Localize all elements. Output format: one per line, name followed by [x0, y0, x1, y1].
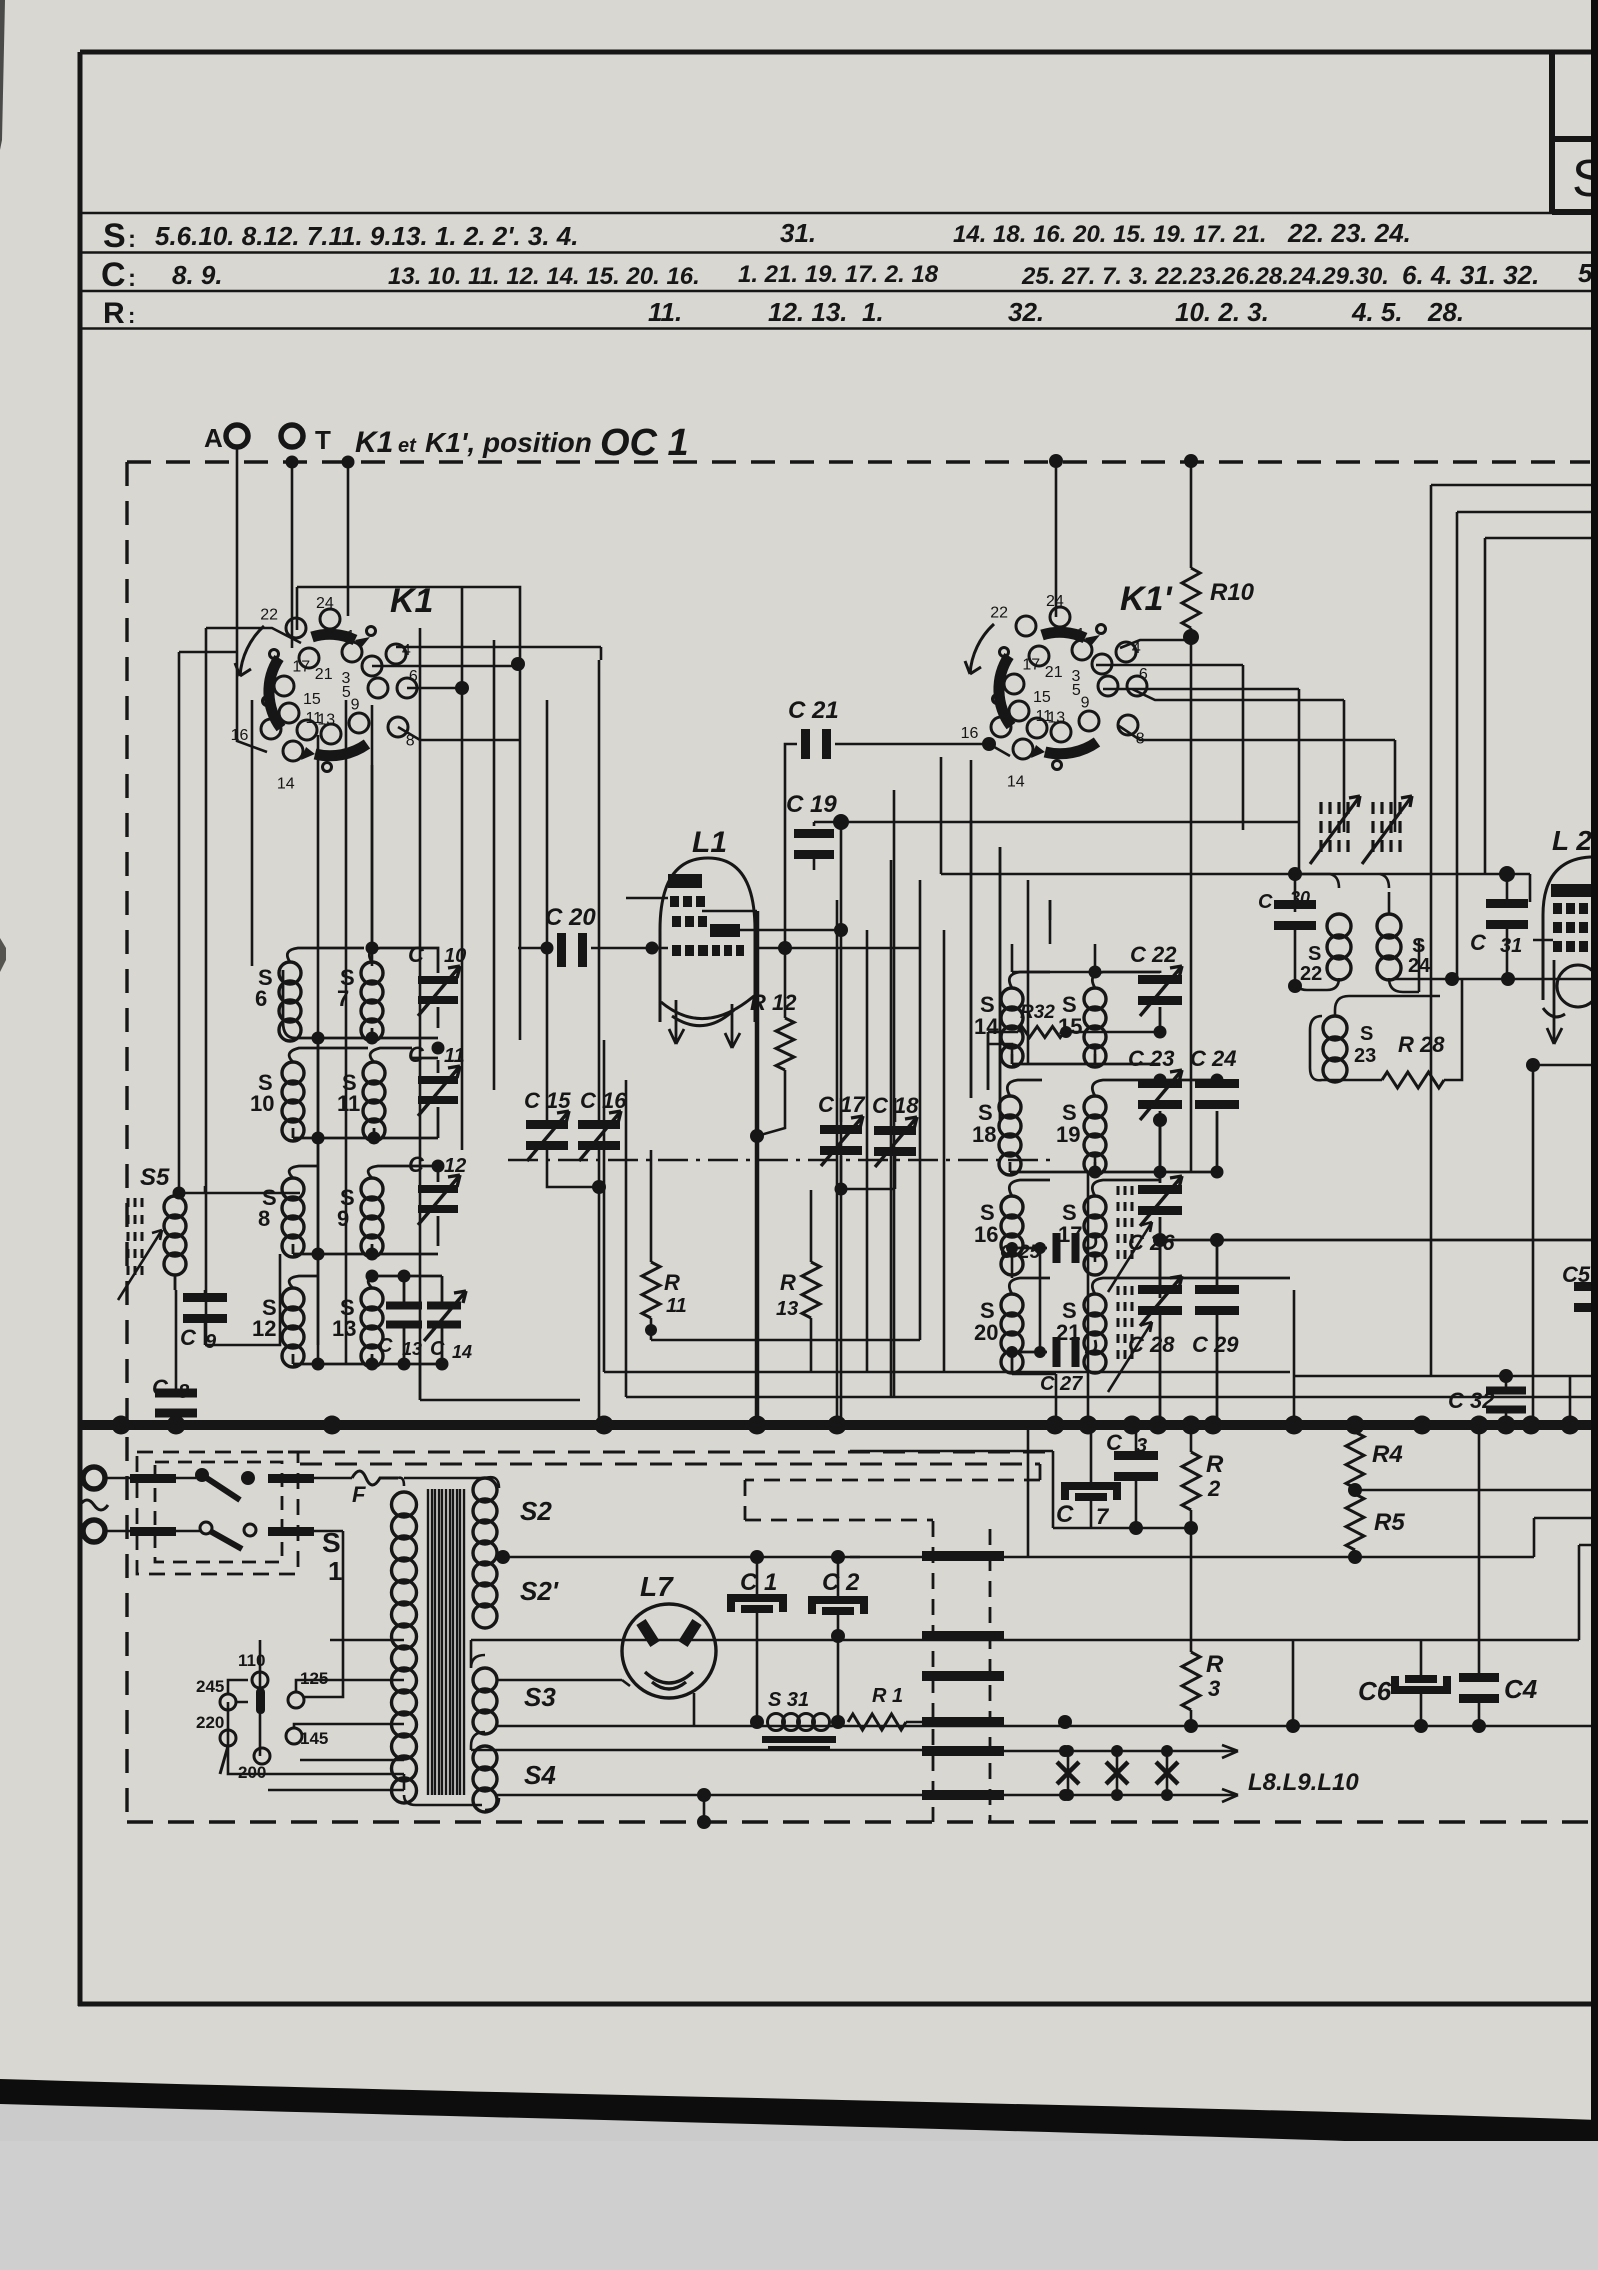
svg-text:R: R [103, 297, 125, 330]
trimmer C15 [526, 1120, 568, 1129]
svg-text:22. 23. 24.: 22. 23. 24. [1287, 218, 1411, 248]
svg-text:8: 8 [178, 1381, 190, 1403]
svg-text:7: 7 [337, 986, 349, 1011]
capacitor C25 [1053, 1233, 1061, 1263]
svg-text:R4: R4 [1372, 1441, 1403, 1468]
parts-list row lines [80, 213, 1598, 329]
svg-text:L1: L1 [692, 826, 727, 859]
svg-text:125: 125 [300, 1669, 328, 1688]
svg-text:C: C [152, 1375, 169, 1400]
right verticals to bus [1294, 1290, 1570, 1425]
svg-text:28.: 28. [1427, 297, 1464, 327]
svg-text:22: 22 [1300, 963, 1322, 985]
svg-text:14: 14 [1007, 773, 1025, 790]
svg-text::: : [128, 303, 135, 328]
mains terminal upper [83, 1467, 105, 1489]
wire K1 left frame [179, 628, 301, 1345]
arrows L8 L9 L10 [1180, 1745, 1238, 1802]
svg-text:6: 6 [1139, 666, 1148, 683]
svg-text:22: 22 [260, 606, 278, 623]
node line C7 C3 R2 [1129, 1521, 1143, 1535]
svg-text:14: 14 [277, 775, 295, 792]
transformer primary S1 [392, 1492, 417, 1803]
svg-text:F: F [352, 1482, 366, 1507]
svg-text:25. 27. 7. 3. 22.23.26.28.24.2: 25. 27. 7. 3. 22.23.26.28.24.29.30. [1021, 263, 1389, 290]
svg-text:C: C [101, 256, 126, 294]
svg-text:C 2: C 2 [822, 1569, 860, 1596]
svg-text:15: 15 [303, 691, 321, 708]
svg-text:C 19: C 19 [786, 791, 837, 818]
capacitor C24 [1195, 1079, 1239, 1088]
line 1640 [690, 1545, 1598, 1640]
svg-text:13: 13 [1047, 710, 1065, 727]
capacitor C13 [386, 1302, 422, 1310]
svg-text:C: C [1258, 891, 1273, 913]
svg-text:C 20: C 20 [545, 904, 596, 931]
svg-text:200: 200 [238, 1763, 266, 1782]
svg-text:4: 4 [402, 642, 411, 659]
svg-text:C: C [180, 1325, 197, 1350]
coil S14 [1001, 988, 1023, 1067]
coil S11 [363, 1062, 385, 1141]
scanner strip right edge [1591, 0, 1598, 2141]
svg-text:21: 21 [315, 666, 333, 683]
resistor R32 [1018, 1027, 1064, 1038]
coil S9 [361, 1178, 383, 1257]
svg-text:S2': S2' [520, 1576, 559, 1606]
svg-text:C 21: C 21 [788, 697, 839, 724]
fuse bars lower [130, 1527, 176, 1536]
svg-text:9: 9 [205, 1331, 217, 1353]
svg-text:12: 12 [252, 1316, 276, 1341]
svg-text:C4: C4 [1504, 1674, 1538, 1704]
coil S8 [282, 1178, 304, 1257]
svg-text:R 1: R 1 [872, 1685, 903, 1707]
svg-text:21: 21 [1045, 664, 1063, 681]
svg-text:5.6.10. 8.12. 7.11. 9.13. 1.: 5.6.10. 8.12. 7.11. 9.13. 1. 2. 2'. 3. 4… [155, 221, 578, 251]
dashed border bottom [127, 1820, 1592, 1823]
transformer core [428, 1489, 464, 1795]
svg-text:220: 220 [196, 1713, 224, 1732]
resistor R28 [1382, 1072, 1444, 1088]
mains terminal lower [83, 1520, 105, 1542]
svg-text:C: C [1106, 1430, 1123, 1455]
capacitor C8 [155, 1389, 197, 1398]
svg-text:S: S [103, 217, 126, 255]
resistor R5 [1346, 1494, 1364, 1550]
power dashed box right jog [745, 1464, 1040, 1520]
svg-text:10. 2. 3.: 10. 2. 3. [1175, 297, 1269, 327]
svg-text::: : [128, 265, 136, 292]
svg-text:R10: R10 [1210, 579, 1255, 606]
trimmer C18 [874, 1126, 916, 1135]
coil S21 with iron core [1084, 1294, 1106, 1373]
coil S23 [1323, 1016, 1347, 1082]
svg-text:31.: 31. [780, 218, 816, 248]
capacitor C7 [1065, 1486, 1117, 1500]
trimmer C26 [1138, 1185, 1182, 1194]
capacitor C4 [1459, 1673, 1499, 1682]
secondary S2 [473, 1478, 497, 1628]
capacitor C3 [1114, 1451, 1158, 1460]
svg-text:C 32: C 32 [1448, 1388, 1495, 1413]
svg-text:C 1: C 1 [740, 1569, 777, 1596]
ganged capacitor dash-dot line [508, 1159, 1055, 1161]
capacitor C32 [1486, 1387, 1526, 1395]
svg-text:K1: K1 [355, 426, 393, 459]
svg-text:10: 10 [250, 1091, 274, 1116]
middle horizontal collectors [604, 1330, 1598, 1397]
svg-text:C: C [378, 1335, 393, 1357]
mains tilde [80, 1500, 108, 1510]
svg-text:R32: R32 [1020, 1002, 1055, 1023]
S18-S19-C23-C24 wiring [1007, 1077, 1217, 1172]
svg-text:K1', position: K1', position [425, 427, 592, 458]
svg-text:5: 5 [342, 684, 351, 701]
coil S7 [361, 962, 383, 1041]
svg-text:13: 13 [317, 712, 335, 729]
coil S6 [279, 962, 301, 1041]
svg-text:K1': K1' [1120, 580, 1173, 618]
S23 box wiring [1310, 996, 1440, 1080]
svg-text:OC 1: OC 1 [600, 422, 689, 464]
power dashed box top [288, 1452, 1055, 1464]
capacitor C29 [1195, 1285, 1239, 1294]
svg-text:L 2: L 2 [1552, 825, 1592, 856]
svg-text:11: 11 [337, 1091, 360, 1116]
svg-text:13: 13 [332, 1316, 356, 1341]
coil S5 with core [164, 1196, 186, 1275]
fuse bars upper [130, 1474, 176, 1483]
S4 bottom pair [697, 1788, 711, 1802]
svg-text:C: C [408, 1042, 425, 1067]
svg-text:S: S [322, 1527, 341, 1558]
svg-text:12. 13.: 12. 13. [768, 297, 848, 327]
iron-core trimmer right [1362, 796, 1412, 864]
K1 pin wires [372, 647, 601, 740]
svg-text:R: R [664, 1270, 680, 1295]
svg-text:7: 7 [1096, 1504, 1110, 1529]
L2 cathode circle [1557, 965, 1598, 1007]
svg-text:12: 12 [444, 1155, 466, 1177]
S20-S21-C27-C28-C29 wiring [1009, 1240, 1598, 1425]
wire junction under caption [342, 456, 355, 469]
capacitor C6 [1395, 1676, 1447, 1690]
secondary S4 [473, 1746, 497, 1812]
title block top right [1552, 54, 1598, 212]
svg-text:S: S [1360, 1023, 1373, 1045]
svg-text:et: et [398, 435, 417, 457]
svg-text:T: T [315, 425, 331, 455]
svg-text:A: A [204, 423, 223, 453]
switch blades [105, 1478, 352, 1697]
switch dashed box inner [155, 1462, 282, 1562]
capacitor C1 [731, 1598, 783, 1612]
scan artifact top-left edge [0, 0, 5, 150]
svg-text:C: C [408, 1152, 425, 1177]
L7 leads [622, 1680, 694, 1726]
iron-core trimmer left [1310, 796, 1360, 864]
S22 S24 wiring [1295, 874, 1419, 992]
coil S18 [999, 1096, 1021, 1175]
trimmer C22 [1138, 975, 1182, 984]
capacitor C20 [557, 933, 566, 967]
resistor R2 [1182, 1452, 1200, 1510]
svg-text:3: 3 [1208, 1676, 1220, 1701]
scan artifact left nick [0, 938, 6, 972]
svg-text:110: 110 [238, 1651, 265, 1670]
svg-text:30: 30 [1290, 888, 1310, 908]
line 1557 [850, 1518, 1598, 1557]
svg-text:11.: 11. [648, 297, 682, 327]
capacitor C31 [1486, 899, 1528, 908]
dashed border top [127, 460, 1590, 463]
svg-text:5: 5 [1072, 682, 1081, 699]
coil S13 [361, 1288, 383, 1367]
trimmer C10 [418, 976, 458, 984]
line 1726 [1184, 1719, 1198, 1733]
switch dashed box outer [137, 1452, 298, 1574]
svg-text:15: 15 [1033, 689, 1051, 706]
lamp connections [1058, 1715, 1072, 1729]
svg-text:C 25: C 25 [1000, 1242, 1041, 1263]
svg-text:22: 22 [990, 604, 1008, 621]
coil S10 [282, 1062, 304, 1141]
trimmer C12 [418, 1185, 458, 1193]
S3 to L7 [497, 1680, 694, 1726]
svg-text:R5: R5 [1374, 1509, 1405, 1536]
svg-text:14. 18. 16. 20. 15. 19. 17. 21: 14. 18. 16. 20. 15. 19. 17. 21. [953, 221, 1267, 248]
svg-text:C6: C6 [1358, 1676, 1392, 1706]
trimmer C28 [1138, 1285, 1182, 1294]
svg-text:C 22: C 22 [1130, 942, 1177, 967]
svg-text:14: 14 [452, 1342, 472, 1362]
svg-text:1. 21. 19. 17. 2. 18: 1. 21. 19. 17. 2. 18 [738, 261, 939, 288]
svg-text:145: 145 [300, 1729, 328, 1748]
shield ladder bars [922, 1551, 1004, 1561]
svg-text:S5: S5 [140, 1164, 170, 1191]
coil S24 [1377, 914, 1401, 980]
wire K1' pin4 to R10 [1056, 462, 1395, 874]
svg-text:14: 14 [974, 1014, 999, 1039]
svg-text:C: C [1470, 930, 1487, 955]
middle long verticals [604, 820, 1000, 1425]
svg-text:11: 11 [666, 1295, 687, 1317]
capacitor C9 [183, 1293, 227, 1302]
svg-text:R: R [780, 1270, 796, 1295]
svg-text:1: 1 [328, 1556, 342, 1586]
svg-text:2: 2 [1207, 1476, 1221, 1501]
svg-text:4. 5.: 4. 5. [1351, 297, 1403, 327]
S10-S11-C11 wiring [289, 1048, 438, 1138]
resistor R10 [1182, 568, 1200, 628]
resistor R11 [642, 1262, 660, 1318]
thick cathode wire down [755, 911, 760, 1425]
K1' region verticals [988, 880, 1095, 1262]
capacitor C19 [794, 829, 834, 838]
svg-text:23: 23 [1354, 1045, 1376, 1067]
S6-S7-C10 wiring [283, 948, 438, 1038]
voltage selector taps [268, 1640, 404, 1790]
row bottoms to bus verticals [318, 1038, 580, 1400]
capacitor C30 [1274, 900, 1316, 909]
coil S20 [1001, 1294, 1023, 1373]
svg-text:6: 6 [255, 986, 267, 1011]
capacitor C21 [801, 729, 810, 759]
rotary switch K1 [231, 595, 418, 792]
svg-text:C: C [1056, 1501, 1074, 1528]
coil S22 [1327, 914, 1351, 980]
transformer top/bottom connections [398, 1477, 925, 1810]
svg-text:R 28: R 28 [1398, 1032, 1445, 1057]
trimmer C23 [1138, 1079, 1182, 1088]
svg-text:C 24: C 24 [1190, 1046, 1236, 1071]
L2 arrow [1547, 960, 1562, 1044]
trimmer C16 [578, 1120, 620, 1129]
svg-text:S 31: S 31 [768, 1689, 809, 1711]
trimmer C14 [427, 1302, 461, 1310]
S12-S13-C13-C14 wiring [289, 1276, 442, 1364]
resistor R13 [802, 1262, 820, 1318]
svg-text:245: 245 [196, 1677, 224, 1696]
fuse F [352, 1471, 398, 1485]
svg-text::: : [128, 226, 136, 253]
svg-text:19: 19 [1056, 1122, 1080, 1147]
L1 grid and plate leads [591, 898, 920, 948]
svg-text:6. 4. 31. 32.: 6. 4. 31. 32. [1402, 260, 1539, 290]
L1 cathode arrows [669, 1000, 684, 1044]
coil S15 [1084, 988, 1106, 1067]
shield ladder dashed verticals [933, 1521, 990, 1822]
trimmer C11 [418, 1076, 458, 1084]
S5 connections [173, 1187, 186, 1200]
svg-text:11: 11 [444, 1045, 465, 1067]
svg-text:R: R [1206, 1651, 1224, 1678]
resistor R3 [1182, 1652, 1200, 1710]
svg-text:8: 8 [406, 733, 415, 750]
svg-text:S2: S2 [520, 1496, 552, 1526]
chassis bus line [78, 1420, 1598, 1430]
L1 cathode arc [661, 996, 754, 1026]
wire A lead down [237, 447, 267, 752]
secondary S3 [473, 1668, 497, 1734]
paper bottom shadow [0, 2079, 1598, 2150]
vertical from bus x1028 [1027, 1425, 1030, 1557]
wire junctions right [1445, 972, 1459, 986]
svg-text:S3: S3 [524, 1682, 556, 1712]
svg-text:6: 6 [409, 668, 418, 685]
coil S12 [282, 1288, 304, 1367]
svg-text:31: 31 [1500, 935, 1522, 957]
svg-text:1.: 1. [862, 297, 884, 327]
svg-text:9: 9 [337, 1206, 349, 1231]
svg-text:16: 16 [961, 725, 979, 742]
svg-text:S: S [1308, 943, 1321, 965]
svg-text:3: 3 [1136, 1435, 1147, 1457]
svg-text:20: 20 [974, 1320, 998, 1345]
coil S16 [1001, 1196, 1023, 1275]
svg-text:L8.L9.L10: L8.L9.L10 [1248, 1769, 1359, 1796]
resistor R12 [776, 1018, 794, 1070]
wire T lead down [286, 456, 299, 469]
terminal T [281, 425, 303, 447]
capacitor C27 [1053, 1337, 1061, 1367]
svg-text:9: 9 [351, 697, 360, 714]
wire K1 outer box [297, 587, 520, 1040]
svg-text:18: 18 [972, 1122, 996, 1147]
dashed border left [125, 462, 128, 1822]
svg-text:L7: L7 [640, 1571, 674, 1602]
antenna terminal A [226, 425, 248, 447]
S14-S15-C22 wiring [1009, 972, 1160, 1064]
resistor R4 [1346, 1432, 1364, 1488]
trimmer C17 [820, 1125, 862, 1134]
svg-text:24: 24 [316, 595, 334, 612]
coil S19 [1084, 1096, 1106, 1175]
svg-text:C 23: C 23 [1128, 1046, 1174, 1071]
svg-text:C 27: C 27 [1040, 1373, 1083, 1395]
svg-text:R: R [1206, 1451, 1224, 1478]
resistor R1 [848, 1714, 906, 1730]
capacitor C2 [812, 1600, 864, 1614]
svg-text:C 26: C 26 [1128, 1230, 1175, 1255]
svg-text:9: 9 [1081, 695, 1090, 712]
svg-text:32.: 32. [1008, 297, 1044, 327]
svg-text:10: 10 [444, 945, 466, 967]
long horizontal 1376 [1294, 1375, 1598, 1378]
svg-text:C: C [408, 942, 425, 967]
svg-text:S4: S4 [524, 1760, 556, 1790]
S16-S17-C25-C26 wiring [1009, 1120, 1160, 1298]
svg-text:13. 10. 11. 12. 14. 15. 20. 16: 13. 10. 11. 12. 14. 15. 20. 16. [388, 263, 700, 290]
svg-text:C5: C5 [1562, 1262, 1591, 1287]
svg-text:13: 13 [776, 1298, 798, 1320]
svg-text:16: 16 [974, 1222, 998, 1247]
rotary switch K1' [961, 593, 1148, 790]
capacitor C5 [1574, 1282, 1598, 1291]
svg-text:8: 8 [258, 1206, 270, 1231]
svg-text:C 28: C 28 [1128, 1332, 1175, 1357]
coil S17 with iron core [1084, 1196, 1106, 1275]
S8-S9-C12 wiring [289, 1166, 438, 1254]
svg-text:8. 9.: 8. 9. [172, 260, 223, 290]
wire bundle left [252, 588, 494, 1400]
nested corner wires top right [1431, 485, 1598, 1376]
